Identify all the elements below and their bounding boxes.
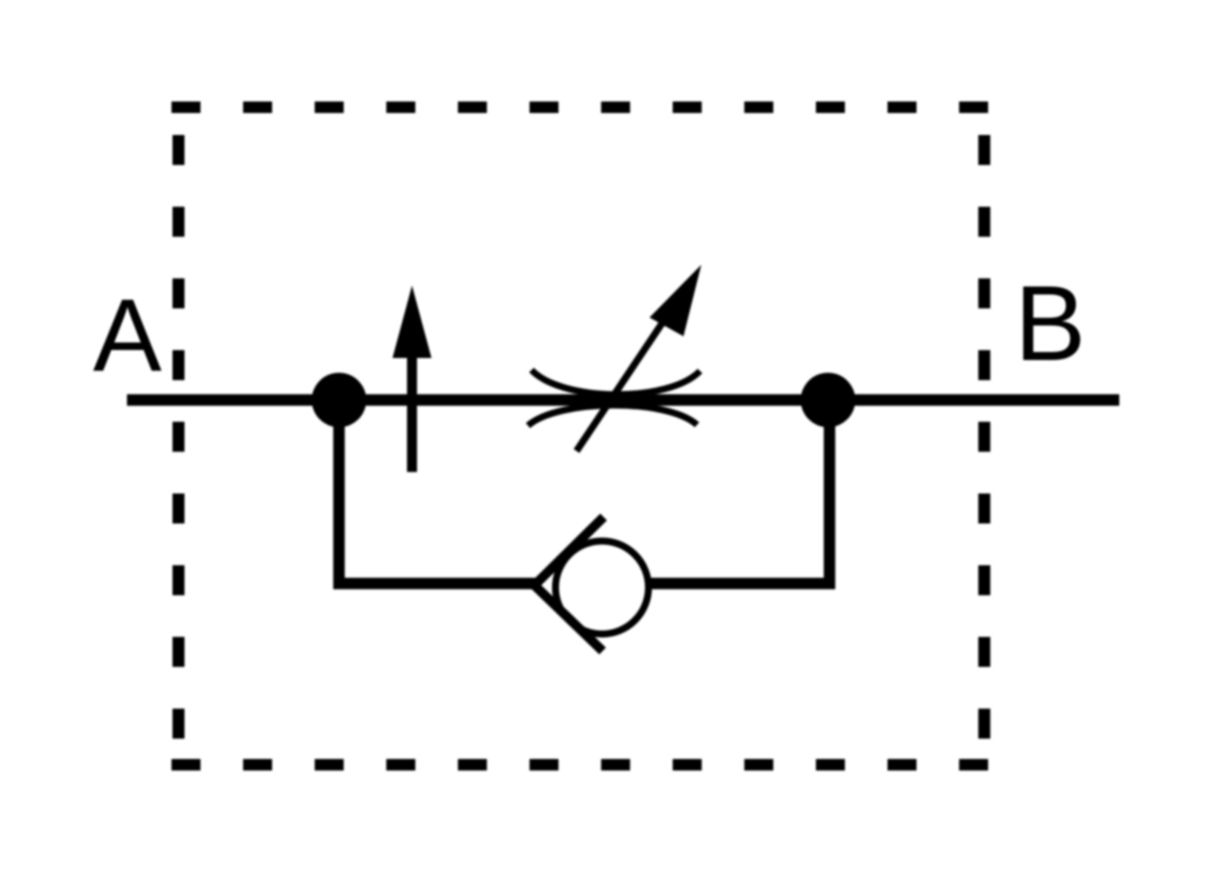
check valve: ball (circle) [556, 541, 649, 634]
gauge/drain arrow: vertical arrow shaft [407, 356, 417, 472]
check valve: seat upper arm [535, 517, 604, 585]
wire: bypass right branch (bottom, up to right node) [648, 400, 830, 584]
check valve: seat lower arm [535, 585, 603, 651]
enclosure dashed border, left side [173, 135, 185, 739]
svg-text:A: A [93, 278, 162, 393]
wire: bypass left branch (down from left node, along bottom) [339, 400, 539, 584]
throttle valve: lower arc [528, 405, 697, 425]
throttle valve: adjustment arrow shaft [577, 283, 690, 451]
enclosure dashed border, bottom side [172, 759, 989, 771]
wire: main line port A to port B [127, 394, 1119, 406]
enclosure dashed border, top side [172, 102, 989, 114]
throttle valve: adjustment arrowhead [650, 265, 702, 337]
gauge/drain arrow: arrowhead [393, 286, 432, 359]
enclosure dashed border, right side [978, 135, 990, 739]
node: junction dot left (A side) [312, 373, 367, 428]
node: junction dot right (B side) [801, 373, 856, 428]
svg-text:B: B [1015, 263, 1086, 383]
throttle valve: upper arc [532, 370, 701, 395]
